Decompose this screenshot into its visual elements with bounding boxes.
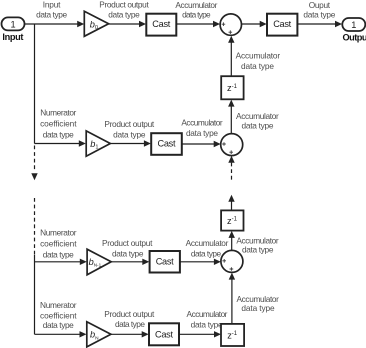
svg-text:data type: data type [303, 10, 335, 20]
svg-text:Cast: Cast [152, 19, 170, 29]
label Accumulator data type row3 [186, 238, 229, 259]
svg-text:Cast: Cast [156, 257, 174, 267]
svg-text:Product output: Product output [99, 0, 149, 10]
wire sum1 to cast2 [242, 21, 267, 27]
wire bN-1 to cast4 [111, 259, 149, 265]
label Numerator coefficient data type row3 [40, 228, 77, 260]
sum S3 [221, 250, 243, 272]
gain b0 [84, 11, 108, 36]
output port 1 [342, 18, 366, 42]
wire bN to cast5 [111, 331, 149, 337]
label Accumulator data type row1 [175, 0, 217, 20]
svg-text:data type: data type [241, 303, 275, 313]
svg-text:data type: data type [182, 10, 211, 20]
label Numerator coefficient data type row4 [40, 300, 77, 330]
svg-text:data type: data type [36, 9, 67, 19]
svg-text:Cast: Cast [158, 139, 176, 149]
svg-text:Accumulator: Accumulator [186, 238, 229, 248]
wire delay2 up arrow [228, 195, 234, 211]
label Product output data type row3 [102, 238, 153, 259]
wire b1 to cast3 [110, 140, 151, 146]
svg-text:Accumulator: Accumulator [175, 0, 217, 10]
svg-text:data type: data type [191, 249, 222, 259]
svg-text:Input: Input [43, 0, 61, 10]
delay z3 [221, 324, 244, 346]
sum S1 [220, 14, 241, 35]
wire trunk to gain b1 [35, 140, 86, 146]
svg-text:Accumulator: Accumulator [187, 309, 228, 319]
cast block 1 [146, 14, 176, 36]
label Accumulator data type row4 [187, 309, 228, 330]
svg-text:coefficient: coefficient [40, 239, 77, 249]
sum S2 [221, 134, 243, 156]
svg-text:Ouput: Ouput [309, 0, 331, 10]
wire vertical trunk upper [34, 24, 36, 144]
label Accumulator data type above sum2 [236, 111, 279, 130]
label Numerator coefficient data type row2 [40, 108, 77, 140]
wire cast2 to output [297, 21, 342, 27]
wire sum3 to delay2 [229, 231, 235, 251]
svg-text:data type: data type [112, 249, 144, 259]
svg-text:Numerator: Numerator [40, 300, 77, 310]
svg-text:Input: Input [2, 32, 23, 42]
label Ouput data type [303, 0, 335, 20]
label Input data type [36, 0, 67, 19]
wire trunk to gain bN-1 [35, 259, 87, 265]
wire trunk to gain bN [35, 331, 87, 337]
input port 1 [2, 17, 25, 41]
cast block 2 [267, 14, 297, 36]
svg-text:Cast: Cast [273, 19, 291, 29]
dashed trunk with down arrow [31, 146, 37, 256]
delay z1 [221, 76, 243, 99]
wire delay3 to sum3 [229, 273, 235, 324]
svg-text:data type: data type [191, 319, 223, 329]
cast block 3 [151, 133, 182, 155]
label Accumulator data type below sum1 [236, 50, 281, 70]
svg-text:data type: data type [43, 320, 74, 330]
gain bN [87, 322, 111, 347]
svg-text:data type: data type [242, 120, 274, 130]
wire cast1 to sum1 [176, 21, 220, 27]
dashed wire below sum2 [228, 156, 234, 181]
wire b0 to cast1 [109, 21, 146, 27]
gain b1 [86, 131, 110, 156]
svg-text:data type: data type [113, 130, 146, 140]
svg-text:1: 1 [351, 20, 356, 30]
svg-text:coefficient: coefficient [40, 310, 77, 320]
svg-text:data type: data type [43, 129, 74, 139]
wire delay1 to sum1 [228, 36, 234, 76]
label Accumulator data type below sum3 [236, 294, 279, 313]
delay z2 [221, 210, 243, 230]
label Accumulator data type above sum3 [236, 236, 279, 255]
svg-text:data type: data type [241, 61, 274, 71]
svg-text:data type: data type [108, 9, 140, 19]
svg-text:Product output: Product output [104, 309, 155, 319]
wire cast5 to delay3 [179, 331, 221, 337]
wire input to gain b0 [25, 21, 85, 27]
gain bN-1 [87, 249, 111, 275]
svg-text:data type: data type [43, 249, 74, 259]
svg-text:coefficient: coefficient [40, 118, 77, 128]
svg-text:Product output: Product output [104, 119, 154, 129]
svg-text:Output: Output [343, 32, 366, 42]
cast block 4 [150, 251, 180, 273]
cast block 5 [149, 323, 179, 345]
svg-text:Numerator: Numerator [40, 108, 76, 118]
svg-text:Accumulator: Accumulator [181, 118, 223, 128]
svg-text:1: 1 [10, 20, 15, 30]
wire vertical trunk lower [34, 255, 36, 334]
wire sum2 to delay1 [228, 100, 234, 134]
svg-text:data type: data type [115, 319, 145, 329]
svg-text:Cast: Cast [155, 329, 173, 339]
svg-text:Product output: Product output [102, 238, 153, 248]
svg-text:Accumulator: Accumulator [236, 50, 281, 60]
wire cast3 to sum2 [182, 141, 221, 147]
label Accumulator data type row2 [181, 118, 223, 139]
svg-text:Numerator: Numerator [40, 228, 77, 238]
svg-text:data type: data type [186, 128, 218, 138]
wire cast4 to sum3 [180, 259, 221, 265]
label Product output data type row2 [104, 119, 154, 140]
svg-text:data type: data type [242, 245, 274, 255]
label Product output data type row1 [99, 0, 149, 19]
label Product output data type row4 [104, 309, 155, 329]
